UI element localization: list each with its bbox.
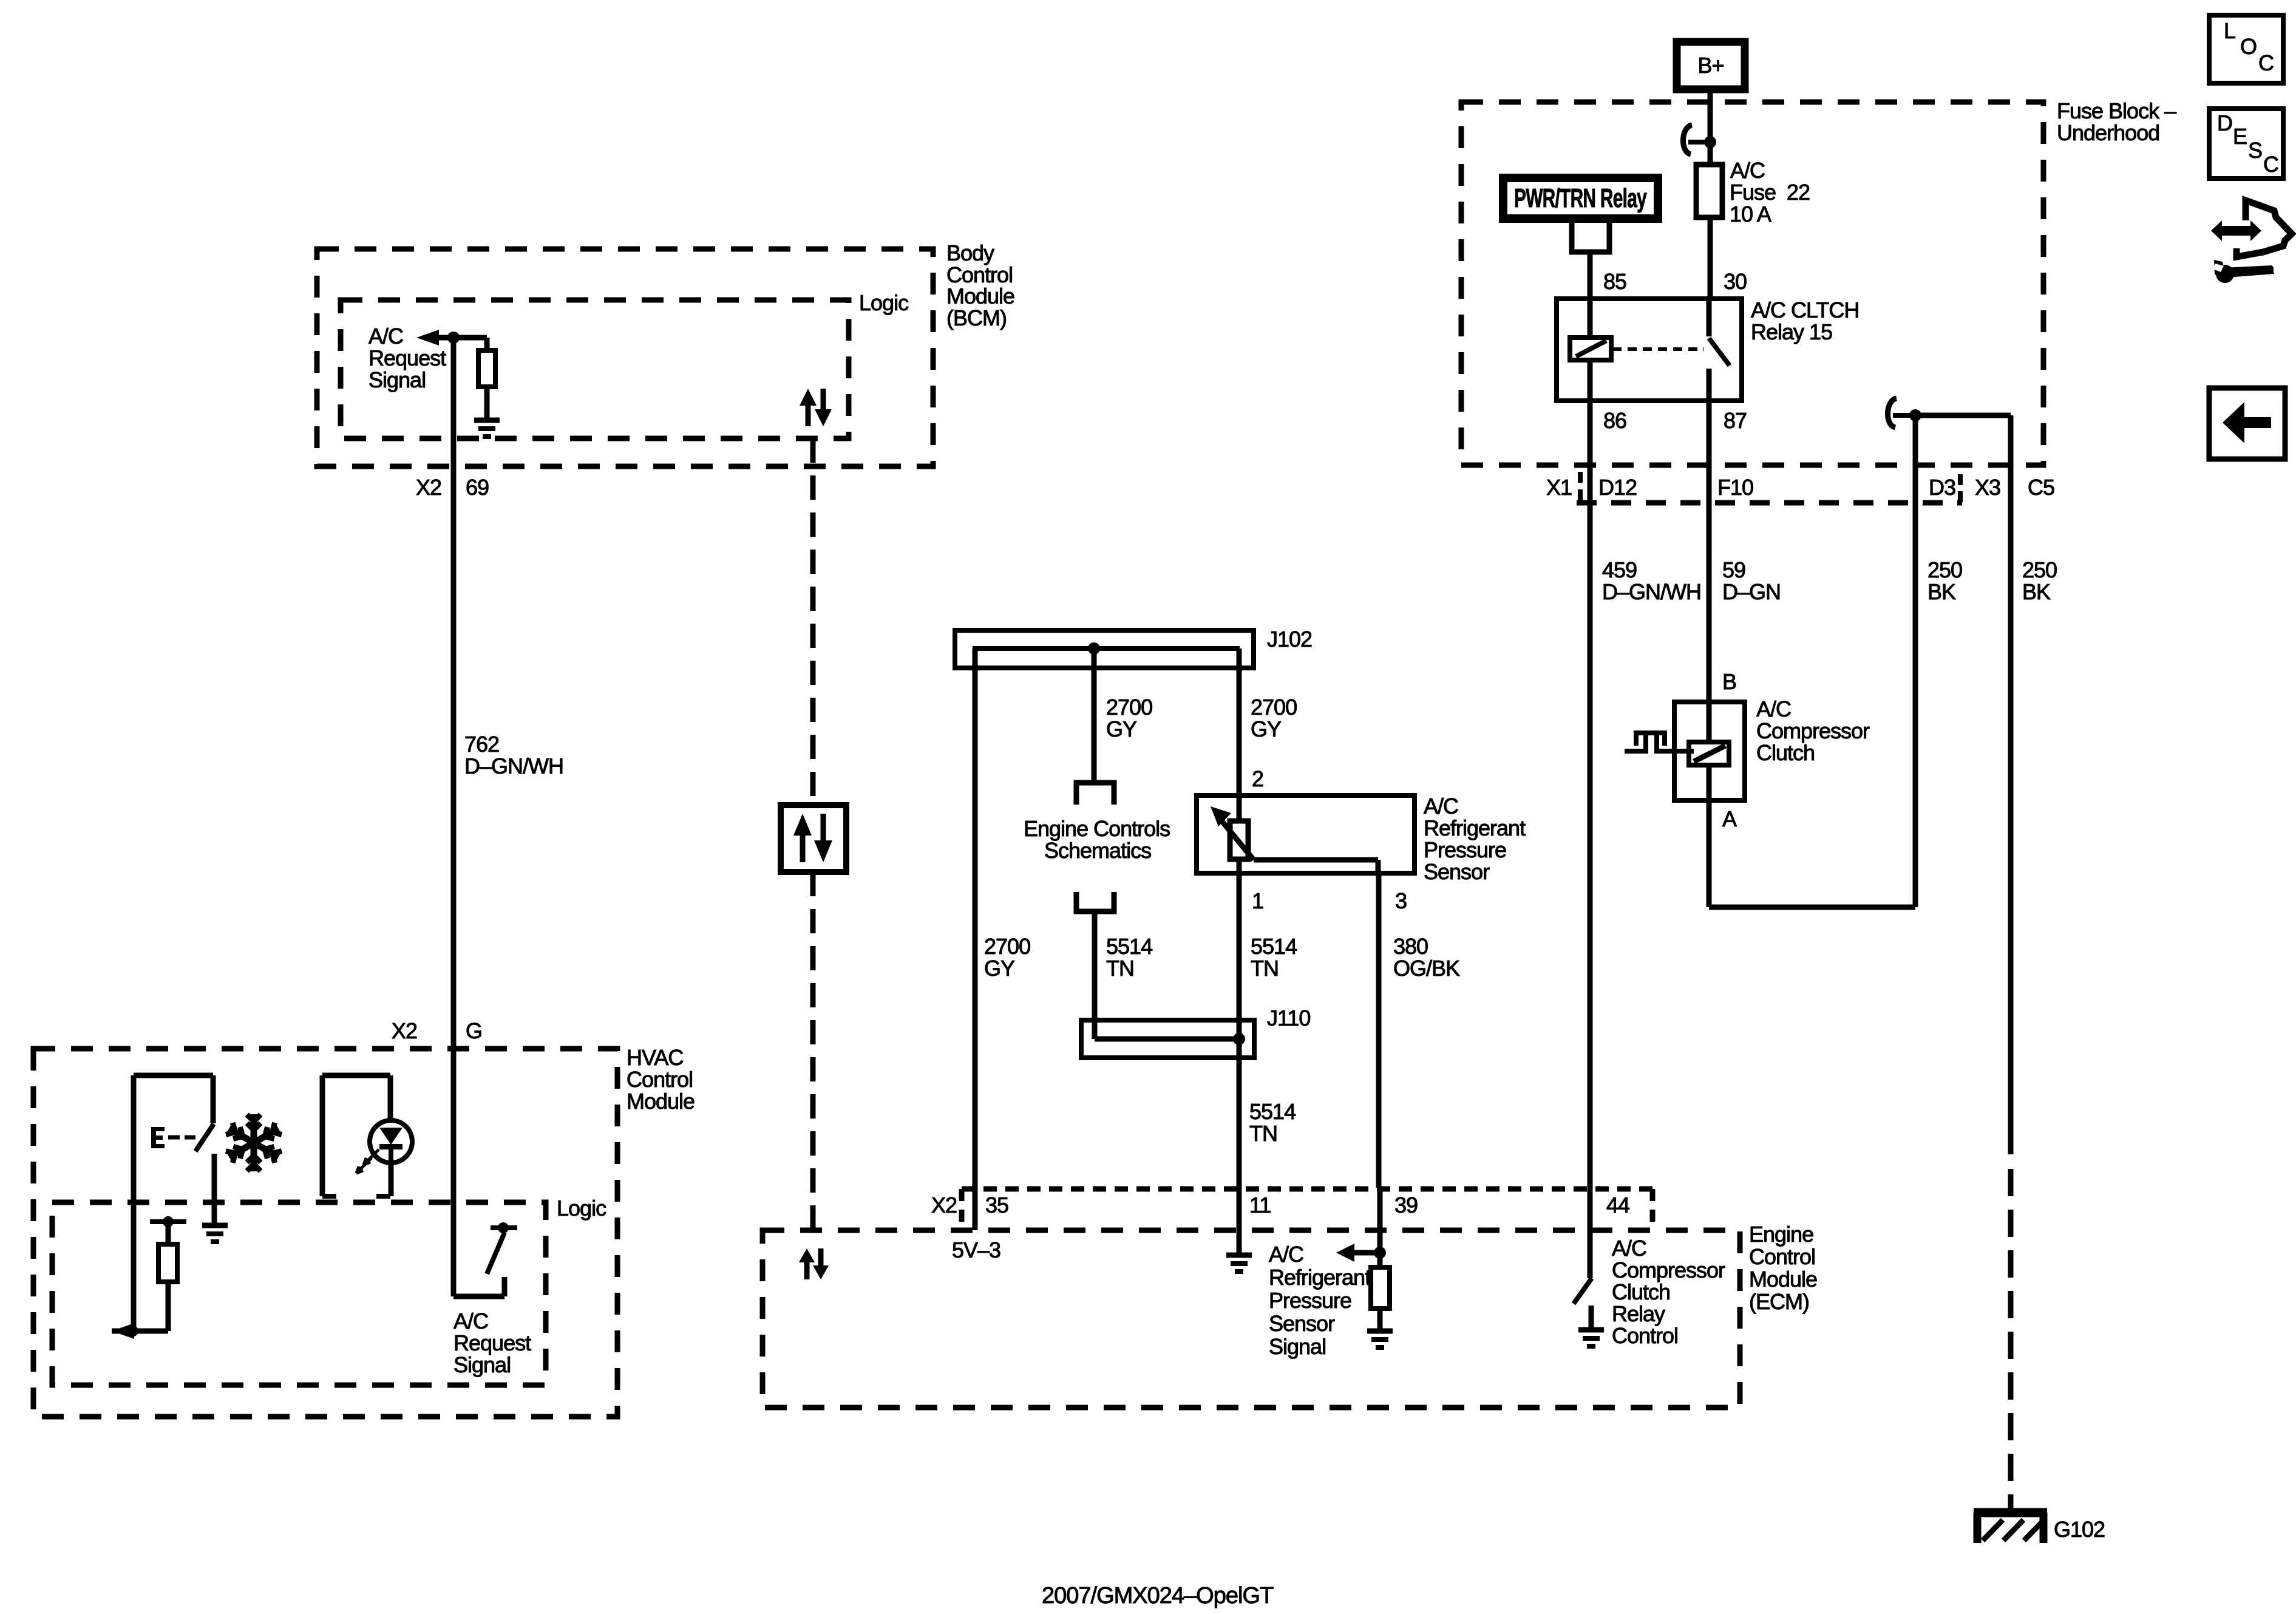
svg-text:59: 59 (1722, 557, 1745, 582)
svg-text:39: 39 (1394, 1193, 1418, 1217)
svg-text:Compressor: Compressor (1756, 718, 1870, 743)
svg-text:GY: GY (984, 956, 1015, 981)
svg-text:Control: Control (1612, 1323, 1678, 1348)
svg-text:G102: G102 (2054, 1517, 2105, 1542)
svg-text:5514: 5514 (1106, 934, 1152, 959)
svg-text:A/C: A/C (1424, 794, 1458, 819)
svg-text:Logic: Logic (557, 1196, 606, 1221)
svg-text:Sensor: Sensor (1269, 1311, 1335, 1336)
svg-text:D: D (2217, 111, 2232, 135)
svg-text:Relay: Relay (1612, 1301, 1665, 1326)
svg-text:2700: 2700 (1106, 695, 1152, 720)
svg-text:Engine Controls: Engine Controls (1024, 816, 1170, 841)
svg-text:TN: TN (1249, 1121, 1277, 1146)
svg-text:5514: 5514 (1251, 934, 1297, 959)
svg-text:D–GN/WH: D–GN/WH (464, 754, 563, 778)
svg-text:A/C: A/C (1612, 1236, 1646, 1261)
svg-text:Fuse Block –: Fuse Block – (2057, 98, 2176, 123)
svg-text:OG/BK: OG/BK (1393, 956, 1460, 981)
svg-text:A/C: A/C (369, 324, 403, 349)
svg-text:2700: 2700 (1251, 695, 1297, 720)
svg-text:69: 69 (466, 475, 489, 500)
svg-text:A/C: A/C (1756, 696, 1791, 721)
svg-text:Compressor: Compressor (1612, 1258, 1725, 1282)
svg-text:X2: X2 (416, 475, 441, 500)
svg-text:X2: X2 (931, 1193, 957, 1217)
svg-text:2007/GMX024–OpelGT: 2007/GMX024–OpelGT (1042, 1583, 1274, 1609)
svg-text:GY: GY (1251, 717, 1282, 741)
svg-text:250: 250 (2022, 557, 2057, 582)
svg-text:TN: TN (1106, 956, 1134, 981)
svg-text:2700: 2700 (984, 934, 1030, 959)
svg-text:44: 44 (1606, 1193, 1629, 1217)
svg-text:(BCM): (BCM) (946, 305, 1007, 330)
svg-text:30: 30 (1724, 269, 1747, 294)
svg-text:A: A (1722, 806, 1737, 831)
svg-text:Sensor: Sensor (1424, 859, 1490, 884)
svg-text:Logic: Logic (859, 290, 909, 315)
svg-text:L: L (2224, 18, 2235, 43)
svg-text:Body: Body (946, 240, 994, 265)
svg-text:2: 2 (1252, 766, 1263, 791)
svg-text:Request: Request (369, 346, 446, 370)
svg-text:C5: C5 (2028, 475, 2054, 500)
svg-text:D12: D12 (1598, 475, 1637, 500)
svg-text:A/C: A/C (453, 1309, 488, 1333)
svg-text:85: 85 (1603, 269, 1626, 294)
svg-text:Signal: Signal (1269, 1334, 1326, 1359)
svg-text:B+: B+ (1697, 53, 1724, 78)
svg-text:X1: X1 (1546, 475, 1572, 500)
svg-text:BK: BK (1927, 579, 1956, 604)
svg-text:S: S (2248, 138, 2262, 163)
svg-text:J102: J102 (1267, 627, 1312, 652)
svg-text:87: 87 (1724, 408, 1747, 433)
svg-text:J110: J110 (1267, 1006, 1310, 1030)
svg-text:5514: 5514 (1249, 1099, 1296, 1124)
svg-text:D–GN/WH: D–GN/WH (1602, 579, 1701, 604)
svg-text:Relay 15: Relay 15 (1751, 319, 1832, 344)
svg-text:762: 762 (464, 732, 499, 757)
svg-text:380: 380 (1393, 934, 1428, 959)
svg-text:D3: D3 (1929, 475, 1955, 500)
svg-text:B: B (1722, 669, 1736, 694)
svg-text:A/C: A/C (1269, 1242, 1303, 1267)
svg-text:X2: X2 (392, 1018, 417, 1043)
svg-text:Module: Module (1749, 1267, 1817, 1292)
svg-text:E: E (2233, 124, 2247, 149)
svg-text:X3: X3 (1975, 475, 2000, 500)
svg-text:250: 250 (1927, 557, 1962, 582)
svg-text:Signal: Signal (453, 1352, 511, 1377)
svg-text:86: 86 (1603, 408, 1626, 433)
svg-text:O: O (2240, 34, 2257, 59)
svg-text:C: C (2263, 152, 2278, 177)
svg-text:3: 3 (1395, 888, 1407, 913)
svg-text:F10: F10 (1717, 475, 1753, 500)
svg-text:Underhood: Underhood (2057, 120, 2159, 145)
svg-text:BK: BK (2022, 579, 2051, 604)
svg-text:Module: Module (946, 284, 1014, 308)
svg-text:459: 459 (1602, 557, 1637, 582)
svg-text:Control: Control (627, 1067, 693, 1092)
svg-text:G: G (466, 1018, 482, 1043)
svg-text:Refrigerant: Refrigerant (1269, 1265, 1371, 1290)
svg-text:Pressure: Pressure (1424, 837, 1506, 862)
svg-text:35: 35 (985, 1193, 1008, 1217)
svg-text:GY: GY (1106, 717, 1137, 741)
svg-text:11: 11 (1249, 1193, 1271, 1217)
svg-text:D–GN: D–GN (1722, 579, 1781, 604)
svg-text:Module: Module (627, 1089, 695, 1114)
svg-text:C: C (2258, 50, 2274, 75)
svg-text:Pressure: Pressure (1269, 1288, 1351, 1313)
svg-text:10 A: 10 A (1730, 202, 1771, 226)
svg-text:TN: TN (1251, 956, 1279, 981)
svg-text:1: 1 (1252, 888, 1263, 913)
svg-text:(ECM): (ECM) (1749, 1289, 1809, 1314)
svg-text:Clutch: Clutch (1756, 740, 1815, 765)
svg-text:Control: Control (1749, 1244, 1815, 1269)
svg-text:Schematics: Schematics (1044, 838, 1151, 863)
svg-text:Engine: Engine (1749, 1222, 1813, 1247)
svg-text:Signal: Signal (369, 367, 426, 392)
svg-text:HVAC: HVAC (627, 1045, 683, 1070)
svg-text:PWR/TRN Relay: PWR/TRN Relay (1514, 183, 1647, 213)
svg-text:Request: Request (453, 1330, 531, 1355)
svg-text:A/C CLTCH: A/C CLTCH (1751, 298, 1859, 322)
svg-text:Clutch: Clutch (1612, 1279, 1670, 1304)
svg-text:5V–3: 5V–3 (952, 1238, 1000, 1262)
svg-text:Refrigerant: Refrigerant (1424, 816, 1526, 840)
svg-text:A/C: A/C (1730, 158, 1765, 183)
svg-text:Fuse 22: Fuse 22 (1730, 180, 1810, 205)
